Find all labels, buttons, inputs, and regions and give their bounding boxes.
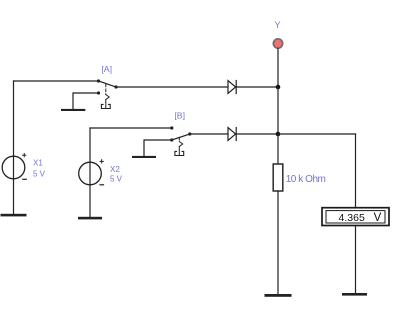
svg-text:V: V [374, 212, 382, 224]
node Y [273, 39, 282, 48]
wire [190, 133, 228, 135]
wire [355, 134, 357, 208]
junction [276, 85, 281, 90]
svg-text:4.365: 4.365 [339, 212, 365, 224]
label X2 5 V [110, 165, 123, 183]
ground [78, 217, 102, 220]
ground [342, 293, 367, 296]
wire [116, 86, 228, 88]
voltage source X1 [2, 154, 26, 180]
junction [276, 132, 281, 137]
svg-text:X1: X1 [33, 159, 43, 168]
switch B [170, 126, 191, 155]
wire [90, 127, 172, 129]
wire [236, 86, 278, 88]
wire [277, 87, 279, 134]
ground [265, 294, 292, 297]
wire [89, 128, 91, 217]
resistor 10 k Ohm [273, 164, 283, 191]
svg-text:[A]: [A] [101, 64, 112, 74]
wire [13, 81, 15, 214]
wire [14, 80, 99, 82]
wire [277, 191, 279, 294]
wire [73, 93, 99, 109]
diode D1 [228, 81, 236, 94]
ground [61, 109, 85, 111]
svg-text:X2: X2 [110, 165, 120, 174]
label X1 5 V [33, 159, 46, 179]
svg-text:10 k Ohm: 10 k Ohm [286, 174, 326, 185]
wire [277, 134, 279, 164]
svg-text:5 V: 5 V [110, 174, 123, 183]
voltmeter U1 [322, 208, 389, 226]
voltmeter reading 4.365 V [339, 212, 382, 224]
voltage source X2 [79, 160, 104, 185]
svg-text:Y: Y [274, 20, 280, 30]
wire [278, 133, 356, 135]
diode D2 [228, 128, 236, 141]
svg-text:[B]: [B] [174, 111, 185, 121]
svg-text:5 V: 5 V [33, 170, 46, 179]
wire [144, 140, 172, 156]
wire [355, 226, 357, 294]
ground [132, 156, 156, 158]
wire [277, 49, 279, 88]
switch A [97, 79, 118, 108]
wire [236, 133, 278, 135]
ground [1, 214, 27, 217]
